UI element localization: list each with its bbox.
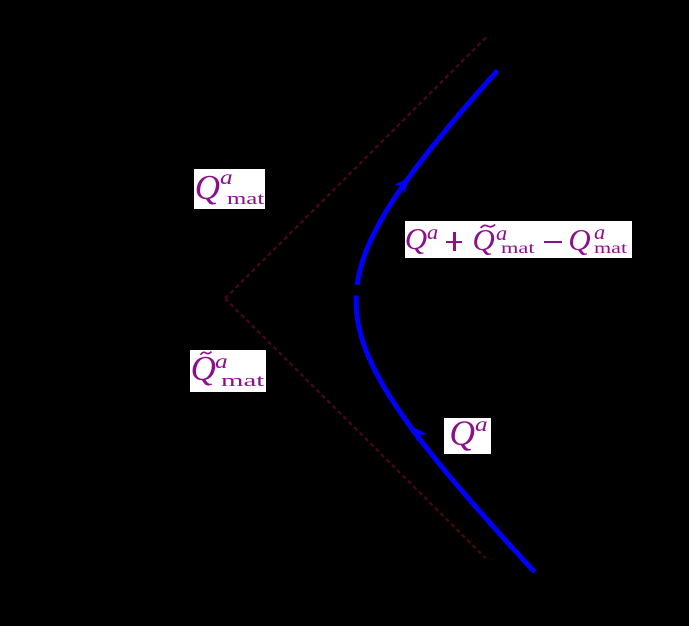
node: lower arrowhead on worldline — [413, 427, 428, 443]
node: upper arrowhead on worldline — [394, 178, 409, 194]
node: tilde accent over Q (label 3) — [480, 223, 496, 230]
wire: blue accelerated worldline, upper branch — [357, 71, 497, 286]
wire: upper dashed null line (future horizon) — [225, 37, 487, 299]
node: plus sign — [446, 241, 462, 244]
wire: blue accelerated worldline, lower branch — [356, 296, 534, 573]
node: tilde accent over Q (label 2) — [200, 350, 213, 357]
node: label Q^a_mat (upper-left charge) — [194, 169, 265, 209]
node: label Q^a + tilde-Q^a_mat - Q^a_mat (boost charge label) — [405, 221, 632, 258]
node: label Q^a (matter charge on worldline) — [444, 418, 491, 454]
wire: lower dashed null line (past horizon) — [225, 299, 486, 559]
node: minus sign — [544, 241, 562, 244]
node: label tilde-Q^a_mat (lower-left charge) — [190, 350, 266, 392]
